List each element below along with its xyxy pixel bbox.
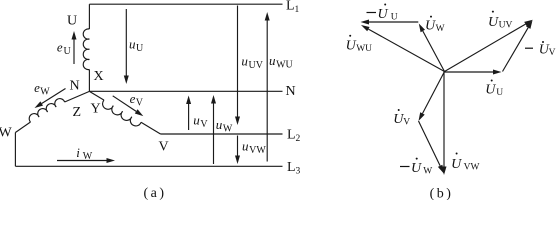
svg-text:(b): (b) <box>430 187 454 201</box>
svg-text:u: u <box>193 113 200 128</box>
svg-text:Y: Y <box>91 102 101 117</box>
svg-text:WU: WU <box>356 44 372 54</box>
svg-text:U: U <box>411 161 422 176</box>
svg-text:U: U <box>378 7 389 22</box>
svg-text:N: N <box>286 84 296 99</box>
svg-text:u: u <box>242 138 249 153</box>
svg-text:U: U <box>136 43 144 54</box>
svg-text:e: e <box>130 91 136 106</box>
svg-text:V: V <box>403 117 410 127</box>
svg-text:U: U <box>346 39 357 54</box>
svg-text:W: W <box>423 167 432 177</box>
svg-text:L: L <box>287 160 296 175</box>
svg-text:V: V <box>136 97 144 108</box>
svg-text:(a): (a) <box>143 186 166 200</box>
svg-text:W: W <box>40 86 50 97</box>
svg-text:u: u <box>241 53 248 68</box>
svg-text:U: U <box>391 13 398 23</box>
svg-text:U: U <box>67 14 77 29</box>
svg-text:3: 3 <box>296 166 301 176</box>
svg-text:UV: UV <box>499 21 513 31</box>
svg-text:W: W <box>436 24 445 34</box>
svg-text:W: W <box>223 123 233 134</box>
svg-text:VW: VW <box>249 145 266 156</box>
svg-text:VW: VW <box>464 163 480 173</box>
svg-text:U: U <box>496 88 503 98</box>
svg-text:L: L <box>287 128 296 143</box>
svg-text:U: U <box>485 83 496 98</box>
svg-text:X: X <box>94 69 104 84</box>
svg-text:V: V <box>549 48 556 58</box>
svg-text:WU: WU <box>276 59 293 70</box>
svg-text:Z: Z <box>73 105 82 120</box>
svg-text:W: W <box>83 151 93 162</box>
svg-text:U: U <box>64 46 72 57</box>
svg-text:u: u <box>269 53 276 68</box>
svg-text:UV: UV <box>249 60 264 71</box>
svg-text:2: 2 <box>296 134 301 144</box>
svg-text:u: u <box>129 37 136 52</box>
svg-text:V: V <box>200 119 208 130</box>
svg-text:i: i <box>76 145 80 160</box>
svg-text:e: e <box>34 80 40 95</box>
svg-text:W: W <box>0 126 13 141</box>
svg-text:N: N <box>70 79 80 94</box>
svg-text:e: e <box>57 39 63 54</box>
svg-text:1: 1 <box>295 5 300 15</box>
svg-text:u: u <box>216 117 223 132</box>
svg-text:L: L <box>286 0 295 14</box>
svg-text:V: V <box>159 140 169 155</box>
svg-text:U: U <box>488 15 499 30</box>
svg-text:U: U <box>451 157 462 172</box>
svg-text:U: U <box>425 19 436 34</box>
